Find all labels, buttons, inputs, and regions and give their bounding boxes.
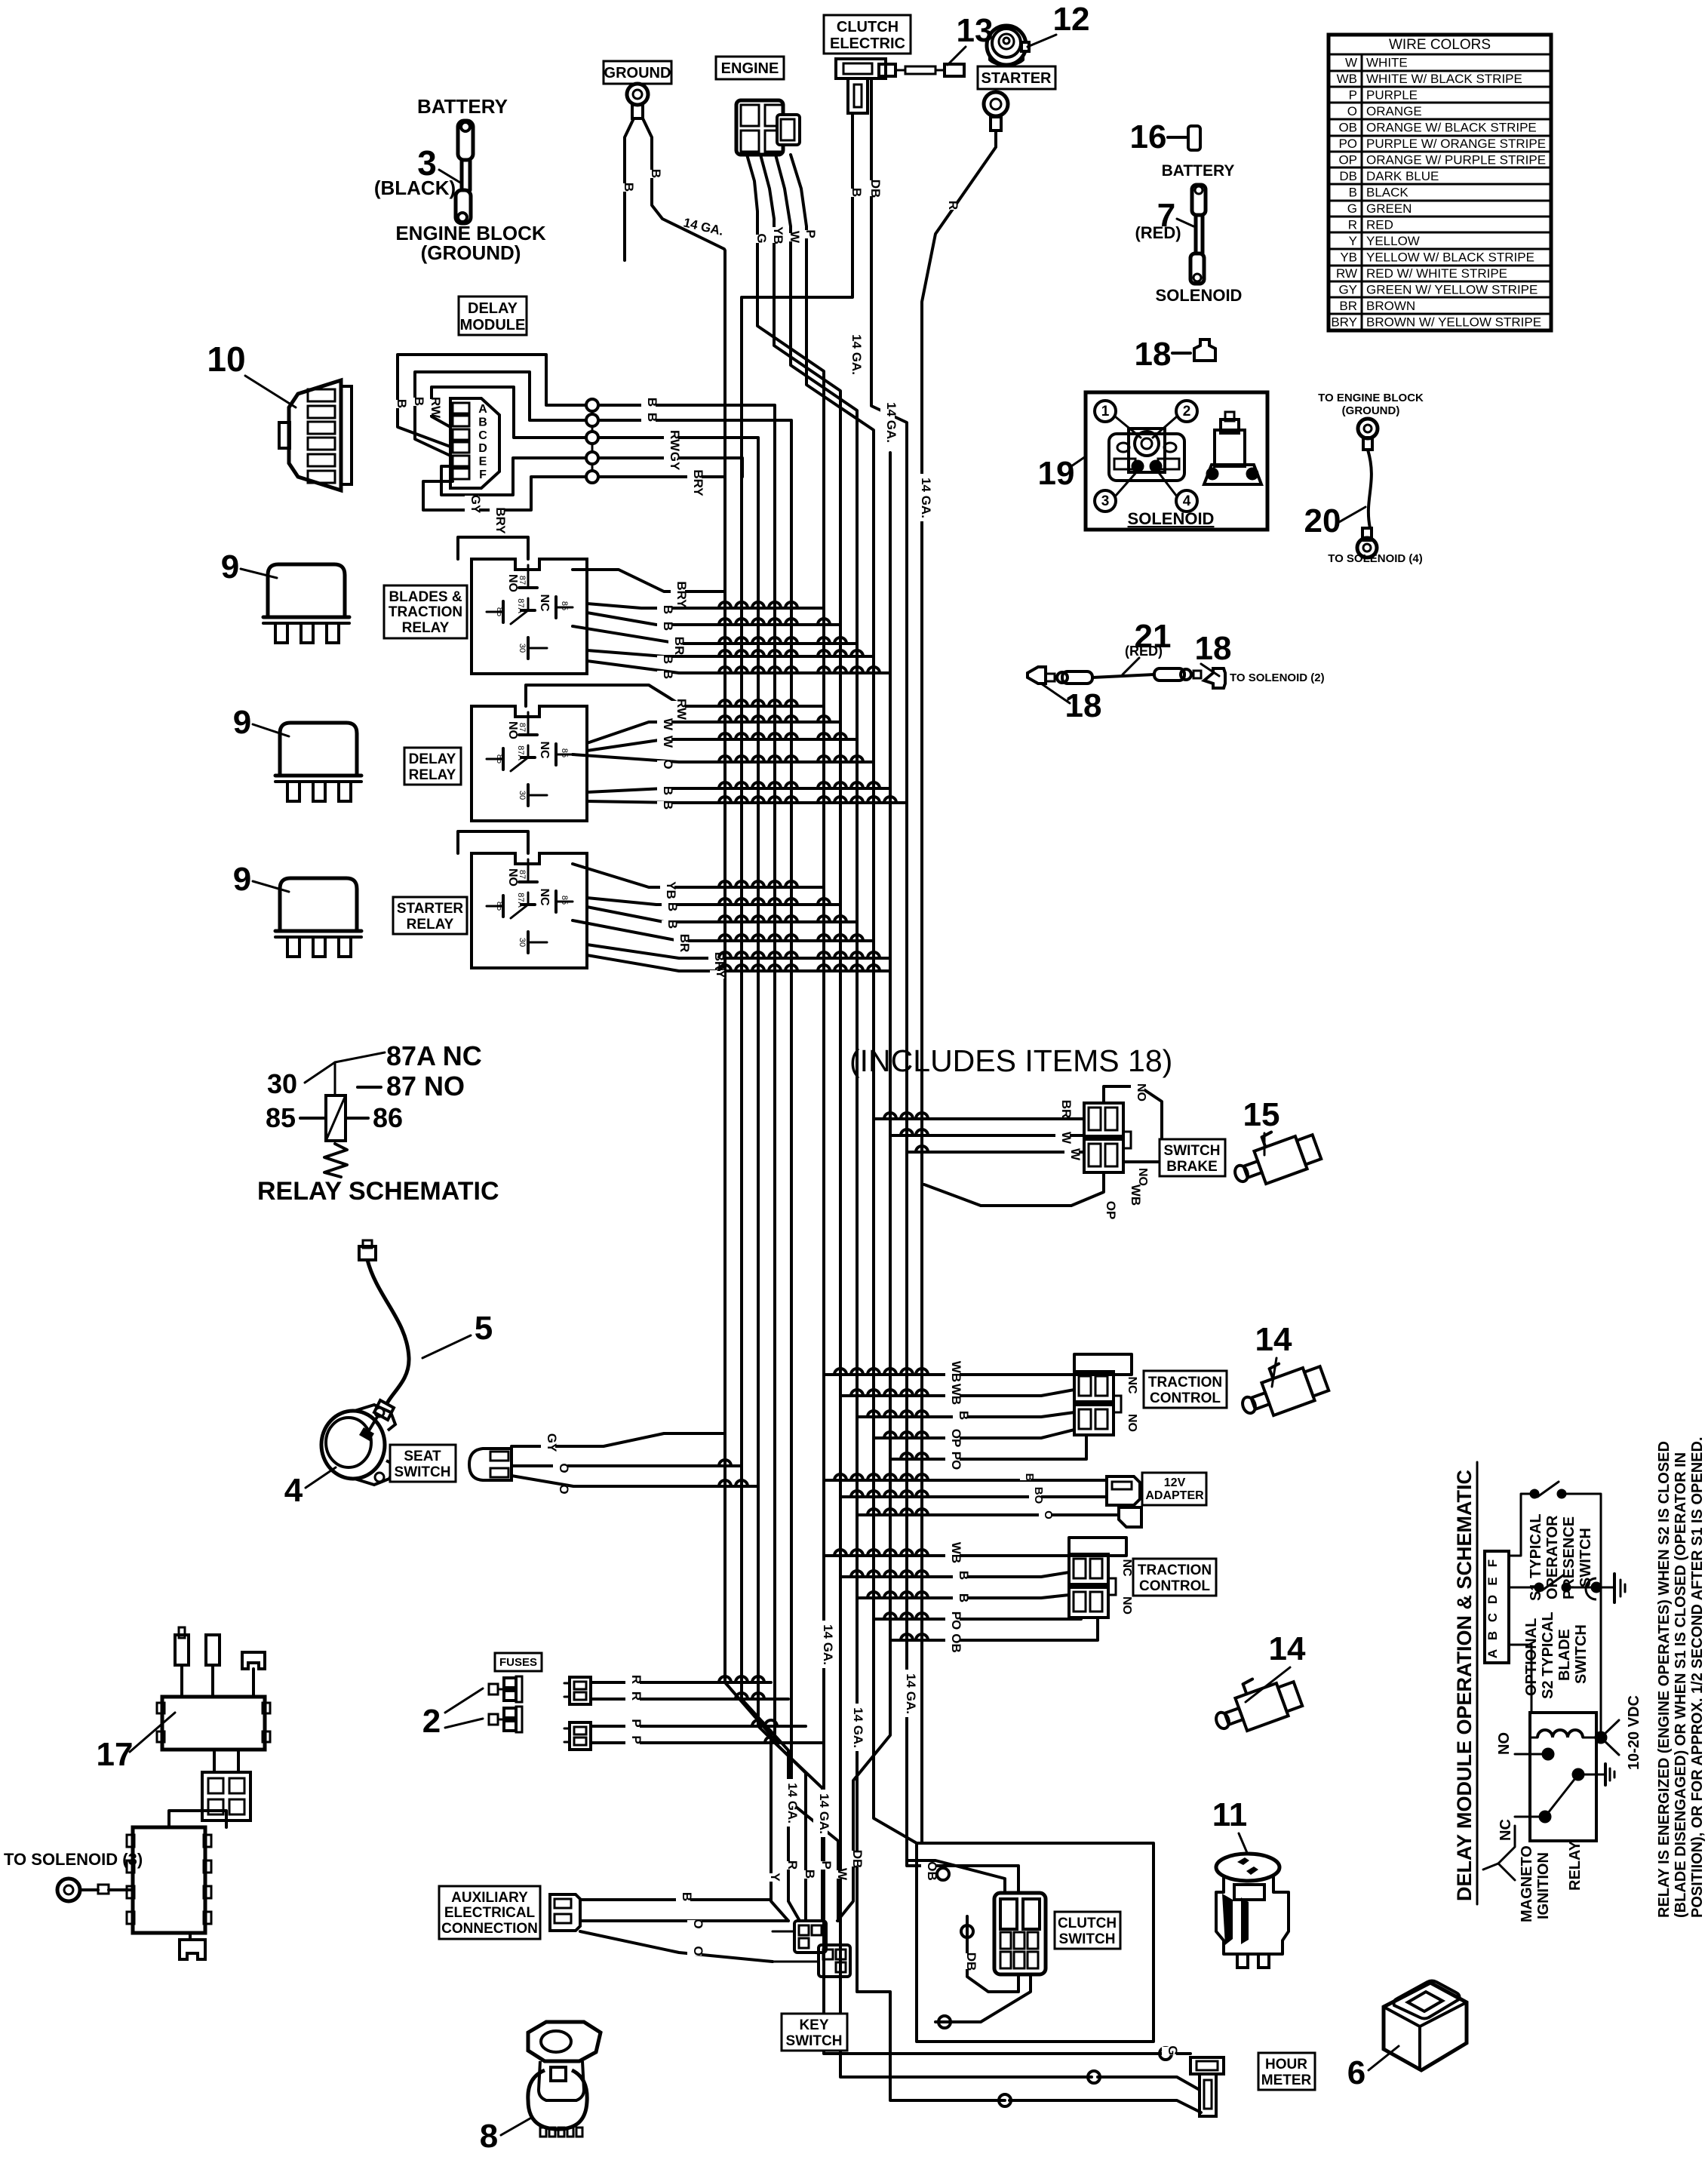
svg-text:WB: WB: [949, 1542, 963, 1563]
wire label BRY dm bot: [490, 509, 504, 533]
label box AUX: [439, 1886, 540, 1939]
wire tc2 B2: [857, 1595, 1069, 1598]
svg-text:B: B: [849, 188, 864, 197]
svg-text:D: D: [478, 442, 487, 455]
svg-text:NO: NO: [1120, 1596, 1133, 1615]
svg-text:BRY: BRY: [1331, 315, 1357, 330]
svg-text:85: 85: [560, 601, 569, 610]
lbl W sb2: [1064, 1151, 1079, 1159]
label box SWITCH BRAKE: [1160, 1139, 1225, 1176]
humps fuse p2: [765, 1737, 777, 1743]
svg-text:OP: OP: [1338, 153, 1357, 167]
svg-text:P: P: [803, 229, 818, 238]
svg-text:GY: GY: [1338, 283, 1357, 297]
svg-text:B: B: [665, 902, 680, 911]
svg-text:R: R: [785, 1860, 800, 1870]
svg-text:14 GA.: 14 GA.: [884, 402, 899, 443]
svg-text:20: 20: [1304, 502, 1341, 539]
item 14 switch b: [1207, 1666, 1304, 1739]
humps r2 b2: [719, 797, 896, 803]
item 14 switch a: [1233, 1350, 1330, 1424]
wire label B r2: [641, 413, 656, 422]
wire seat O1: [511, 1464, 742, 1467]
wire label W bot: [831, 1870, 846, 1879]
svg-text:G: G: [1347, 201, 1357, 216]
wire r1 B2: [587, 613, 840, 625]
wire label G: [751, 235, 765, 243]
lbl W sb1: [1055, 1134, 1070, 1142]
svg-text:HOUR: HOUR: [1265, 2057, 1307, 2072]
lbl PO tc1: [945, 1452, 960, 1468]
lbl P f2: [625, 1736, 640, 1744]
item 11 switch: [1216, 1854, 1289, 1968]
svg-text:BR: BR: [677, 934, 692, 953]
wire aux O2: [580, 1931, 773, 1962]
relay starter label box: [393, 897, 467, 934]
svg-text:KEY: KEY: [799, 2017, 828, 2033]
lbl NO sb top: [1131, 1085, 1144, 1100]
svg-text:19: 19: [1038, 455, 1075, 492]
item 6 hour meter body: [1384, 1981, 1467, 2071]
svg-text:SWITCH: SWITCH: [395, 1464, 451, 1480]
svg-text:W: W: [1068, 1148, 1083, 1161]
svg-text:NO: NO: [1135, 1083, 1147, 1102]
svg-text:MAGNETO: MAGNETO: [1519, 1845, 1535, 1922]
wire r3 YB: [573, 864, 824, 887]
wire label 14GA t4: [817, 1621, 831, 1668]
lbl OP sb: [1100, 1202, 1114, 1218]
svg-text:P: P: [819, 1860, 834, 1869]
wire cs o1: [937, 1868, 949, 1880]
wire label 14GA t5: [900, 1670, 914, 1717]
svg-text:ADAPTER: ADAPTER: [1145, 1489, 1204, 1502]
svg-text:GY: GY: [468, 495, 483, 514]
wire cs o3: [938, 2016, 951, 2028]
svg-text:WB: WB: [949, 1384, 963, 1405]
svg-text:GREEN: GREEN: [1366, 201, 1412, 216]
label box ENGINE: [716, 57, 784, 79]
wire label P bot: [816, 1861, 830, 1870]
svg-text:DELAY: DELAY: [409, 751, 456, 767]
wire tc2 B1: [840, 1572, 1069, 1577]
wire abcdef to relay: [1509, 1645, 1531, 1713]
wire seat O2: [511, 1476, 758, 1486]
label box TRACTION CONTROL 2: [1133, 1559, 1216, 1596]
humps r2 w1: [719, 716, 830, 722]
svg-text:CONTROL: CONTROL: [1139, 1578, 1210, 1594]
svg-text:12V: 12V: [1164, 1476, 1186, 1489]
hour meter connector: [1190, 2057, 1224, 2116]
lbl NC tc1: [1122, 1378, 1135, 1393]
svg-text:SWITCH: SWITCH: [786, 2033, 843, 2049]
wire r2 RW: [526, 685, 824, 706]
lbl B aux: [676, 1893, 690, 1901]
svg-text:NC: NC: [1498, 1819, 1514, 1841]
humps r3 br2: [719, 952, 880, 958]
svg-text:SWITCH: SWITCH: [1059, 1931, 1116, 1947]
svg-text:14: 14: [1269, 1630, 1306, 1667]
leader 12: [1028, 35, 1056, 47]
clutch electric connector: [836, 59, 886, 113]
lbl P f1: [625, 1719, 640, 1728]
svg-text:O: O: [557, 1484, 571, 1494]
svg-text:TRACTION: TRACTION: [389, 604, 462, 620]
wire label W: [784, 233, 798, 241]
wire r2 B1: [587, 788, 890, 792]
svg-text:CLUTCH: CLUTCH: [837, 19, 899, 35]
humps tc2 a: [834, 1550, 928, 1556]
lbl BR r3a: [674, 935, 688, 951]
svg-text:R: R: [629, 1675, 644, 1684]
wire r3 BR2: [587, 945, 890, 958]
label box DELAY MODULE: [459, 297, 527, 335]
svg-text:B: B: [1349, 186, 1357, 200]
traction control 2 connector: [1069, 1554, 1116, 1618]
svg-text:B: B: [661, 605, 675, 614]
lbl BR r3b: [708, 953, 723, 969]
humps r2 b1: [719, 782, 880, 788]
ground ring terminal: [627, 84, 648, 118]
svg-text:14 GA.: 14 GA.: [821, 1624, 835, 1665]
wire r2 O: [573, 754, 874, 762]
lbl NO sb bot: [1132, 1169, 1146, 1184]
svg-text:G: G: [1166, 2045, 1180, 2055]
svg-text:10: 10: [207, 340, 245, 379]
svg-text:OB: OB: [949, 1633, 963, 1653]
svg-text:BATTERY: BATTERY: [1162, 162, 1235, 180]
wire label RW r3: [664, 432, 678, 448]
delay module connector: [450, 398, 499, 488]
humps r1 b2: [719, 619, 830, 625]
wire r1 B3: [587, 650, 874, 656]
svg-text:14: 14: [1255, 1321, 1292, 1358]
svg-text:85: 85: [560, 896, 569, 905]
lbl YB r3: [660, 882, 674, 898]
wire engine W: [776, 155, 791, 297]
wire fuse P2: [591, 1741, 822, 1744]
wire label 14 GA. clutch: [846, 330, 860, 378]
svg-text:B: B: [1485, 1631, 1500, 1640]
wire tc1 OP: [874, 1430, 1074, 1438]
svg-text:A: A: [478, 403, 487, 416]
wire label B: [645, 170, 659, 178]
svg-text:SWITCH: SWITCH: [1164, 1143, 1221, 1159]
relay blades & traction: [472, 559, 587, 674]
lbl OP tc1: [945, 1430, 960, 1446]
leader 18r: [1201, 664, 1219, 676]
svg-text:ORANGE W/ PURPLE STRIPE: ORANGE W/ PURPLE STRIPE: [1366, 153, 1546, 167]
abcdef box: [1485, 1551, 1509, 1663]
svg-text:(INCLUDES ITEMS 18): (INCLUDES ITEMS 18): [849, 1043, 1172, 1078]
lbl WB tc1b: [945, 1386, 960, 1402]
relay box schematic: [1515, 1667, 1619, 1841]
label box SEAT SWITCH: [390, 1445, 456, 1482]
wire r2 W1: [587, 722, 840, 743]
svg-text:CONNECTION: CONNECTION: [441, 1921, 538, 1937]
item 15 switch: [1226, 1119, 1322, 1192]
svg-text:17: 17: [97, 1736, 134, 1773]
svg-text:B: B: [645, 398, 659, 407]
leader 17: [130, 1713, 175, 1752]
item 17 connectors: [127, 1627, 270, 1959]
svg-text:(RED): (RED): [1135, 223, 1181, 242]
leader 3: [439, 170, 460, 183]
aux connector: [550, 1894, 580, 1931]
lbl WB tc2: [945, 1544, 960, 1560]
svg-text:PO: PO: [949, 1612, 963, 1630]
svg-text:WHITE W/ BLACK STRIPE: WHITE W/ BLACK STRIPE: [1366, 72, 1522, 86]
humps r2 w2: [719, 733, 846, 739]
svg-text:NO: NO: [506, 574, 519, 592]
svg-text:O: O: [691, 1919, 705, 1928]
svg-text:B: B: [661, 786, 675, 795]
item 8 key switch: [528, 2022, 601, 2137]
relay blades & traction label box: [384, 585, 467, 638]
wire r3 B1: [587, 898, 840, 905]
svg-text:ORANGE: ORANGE: [1366, 104, 1422, 118]
wire label B clutch: [846, 189, 860, 197]
lbl O aux2: [687, 1947, 702, 1956]
label box FUSES: [495, 1653, 542, 1671]
svg-text:86: 86: [373, 1102, 403, 1133]
lbl R f1: [625, 1676, 640, 1684]
svg-text:DB: DB: [868, 180, 883, 198]
lbl BO 12v: [1029, 1489, 1041, 1503]
svg-text:PO: PO: [1338, 137, 1357, 151]
lbl WB tc1a: [945, 1363, 960, 1379]
wire cs bottom: [935, 1974, 1031, 2022]
title underline: [1476, 1462, 1479, 1904]
svg-text:RW: RW: [1336, 266, 1357, 281]
svg-text:A: A: [1485, 1649, 1500, 1658]
svg-text:MODULE: MODULE: [460, 317, 526, 333]
wire trunk L1: [725, 477, 788, 1921]
humps 12v a: [834, 1474, 928, 1480]
svg-text:6: 6: [1347, 2054, 1365, 2091]
lbl OB cs: [921, 1863, 935, 1879]
wire engine P: [791, 155, 806, 297]
humps seat o1: [719, 1460, 731, 1466]
svg-text:O: O: [1042, 1510, 1055, 1519]
svg-text:SEAT: SEAT: [404, 1449, 441, 1464]
lbl B r2b: [657, 801, 671, 810]
svg-text:5: 5: [475, 1310, 493, 1347]
lbl R f2: [625, 1692, 640, 1701]
svg-text:F: F: [1485, 1559, 1500, 1567]
svg-text:P: P: [629, 1719, 644, 1727]
svg-text:DB: DB: [964, 1953, 978, 1971]
wire r3 Y: [587, 955, 890, 971]
wire aux O1: [580, 1919, 788, 1922]
humps r3 b2: [719, 916, 846, 922]
svg-text:YB: YB: [771, 226, 785, 244]
svg-text:F: F: [479, 469, 487, 481]
svg-text:B: B: [412, 397, 426, 406]
humps r2 rw: [719, 700, 797, 706]
humps 12v c: [868, 1509, 928, 1515]
wire label 14GA t2: [813, 1790, 828, 1837]
svg-text:WB: WB: [1129, 1184, 1143, 1206]
humps tc2 b: [851, 1571, 928, 1577]
svg-text:DELAY MODULE OPERATION & SCHEM: DELAY MODULE OPERATION & SCHEMATIC: [1453, 1470, 1476, 1901]
svg-text:R: R: [1348, 218, 1357, 232]
item 9 relay a: [263, 564, 349, 643]
wire ground B left: [625, 118, 634, 260]
svg-text:87A NC: 87A NC: [386, 1040, 482, 1071]
svg-text:16: 16: [1130, 118, 1167, 155]
svg-text:B: B: [957, 1411, 971, 1420]
engine connector: [736, 100, 800, 155]
leader 11: [1239, 1833, 1248, 1854]
item 19 solenoid detail box: [1086, 392, 1267, 530]
svg-text:RW: RW: [429, 397, 443, 419]
svg-text:NC: NC: [538, 594, 551, 612]
label box CLUTCH SWITCH: [1055, 1912, 1120, 1949]
wire fuse R1: [591, 1681, 771, 1684]
humps seat o2: [719, 1480, 748, 1486]
wire cs o2: [961, 1925, 973, 1937]
wire sb W2: [907, 1151, 1084, 1154]
wire 12v BO: [840, 1495, 1107, 1498]
relay delay: [472, 706, 587, 821]
svg-text:C: C: [1485, 1613, 1500, 1622]
svg-text:GROUND: GROUND: [604, 65, 671, 81]
label box HOUR METER: [1258, 2053, 1315, 2090]
lbl G hm: [1162, 2047, 1176, 2055]
svg-text:15: 15: [1243, 1096, 1280, 1133]
wire label DB clutch: [865, 180, 879, 196]
svg-text:BRY: BRY: [493, 507, 508, 534]
wire fuse P1: [591, 1725, 806, 1728]
leader 19: [1071, 456, 1086, 466]
wire label GY r4: [664, 453, 678, 469]
svg-text:B: B: [661, 800, 675, 810]
svg-text:TO ENGINE BLOCK: TO ENGINE BLOCK: [1318, 392, 1424, 404]
wire trunk L4: [775, 476, 822, 1921]
wire label BRY r5: [687, 471, 702, 495]
humps r1 b3: [719, 650, 863, 656]
svg-text:RW: RW: [674, 699, 689, 721]
lbl B r3a: [662, 903, 676, 911]
wire delay BRY loop: [423, 477, 725, 510]
wire cs loop outer: [917, 1843, 1154, 2042]
svg-text:W: W: [1345, 56, 1357, 70]
svg-text:E: E: [1485, 1577, 1500, 1585]
svg-text:POSITIION), OR FOR APPROX. 1/2: POSITIION), OR FOR APPROX. 1/2 SECOND AF…: [1689, 1436, 1706, 1918]
svg-text:3: 3: [1101, 493, 1110, 509]
leader item 9 relay b: [253, 724, 289, 736]
wire sb BR: [874, 1117, 1084, 1120]
svg-text:G: G: [754, 233, 769, 243]
hour meter circles: [999, 2048, 1172, 2106]
wire tc1 WB2: [840, 1390, 1074, 1396]
svg-text:14 GA.: 14 GA.: [817, 1793, 831, 1834]
leader 7: [1177, 219, 1193, 226]
svg-text:10-20 VDC: 10-20 VDC: [1626, 1695, 1642, 1770]
wire r3 BR1: [573, 920, 874, 941]
leader 20: [1339, 507, 1365, 522]
humps tc2 e: [901, 1634, 928, 1640]
humps r1 b4: [719, 667, 880, 673]
svg-text:14 GA.: 14 GA.: [849, 334, 864, 375]
leader item 15 switch: [1264, 1133, 1266, 1155]
svg-text:BROWN: BROWN: [1366, 299, 1415, 313]
svg-text:TRACTION: TRACTION: [1138, 1562, 1212, 1578]
svg-text:R: R: [946, 201, 960, 210]
item 9 relay b: [275, 723, 361, 801]
svg-text:B: B: [680, 1892, 694, 1901]
lbl NO tc1: [1122, 1415, 1135, 1430]
wire r1 BRY: [573, 570, 725, 591]
svg-text:PURPLE: PURPLE: [1366, 88, 1418, 103]
svg-text:STARTER: STARTER: [397, 901, 464, 917]
wire label B dm2: [408, 398, 422, 406]
svg-text:W: W: [1059, 1132, 1074, 1145]
wire label 14GA t3: [847, 1704, 862, 1751]
wire tc1 WB1: [824, 1354, 1132, 1375]
fuses item 2: [489, 1676, 522, 1732]
svg-text:GY: GY: [545, 1433, 559, 1452]
lbl NC tc2: [1117, 1560, 1130, 1575]
wire r3 top loop: [458, 831, 528, 853]
leaders 2: [445, 1688, 483, 1713]
svg-text:RELAY: RELAY: [402, 620, 450, 636]
svg-text:OP: OP: [1104, 1201, 1118, 1220]
svg-text:ELECTRICAL: ELECTRICAL: [444, 1905, 536, 1921]
humps fuse r1: [719, 1676, 764, 1682]
svg-text:RED: RED: [1366, 218, 1393, 232]
svg-text:30: 30: [267, 1068, 297, 1099]
humps r3 y: [719, 965, 880, 971]
svg-text:RELAY: RELAY: [1567, 1840, 1584, 1891]
svg-text:ENGINE: ENGINE: [721, 60, 779, 77]
svg-text:SOLENOID: SOLENOID: [1128, 509, 1215, 528]
wire trunk R4: [806, 297, 917, 1843]
svg-text:RW: RW: [668, 430, 682, 452]
wire sb W1: [890, 1134, 1084, 1137]
leader 10: [245, 376, 296, 407]
12v adapter connector: [1107, 1476, 1141, 1527]
wire r1 top loop: [458, 537, 528, 559]
wire delay B left: [398, 355, 775, 477]
svg-text:NO: NO: [506, 721, 519, 739]
svg-text:1: 1: [1101, 404, 1110, 419]
seat switch connector: [469, 1449, 511, 1480]
humps tc1 d: [884, 1432, 928, 1438]
wire trunk L2: [742, 476, 800, 1921]
svg-text:18: 18: [1065, 687, 1102, 724]
leader item 14 switch b: [1246, 1667, 1290, 1702]
svg-text:85: 85: [560, 748, 569, 757]
humps r3 b1: [719, 899, 830, 905]
item 18 connector upper: [1172, 340, 1215, 361]
label box STARTER: [978, 66, 1055, 89]
svg-text:9: 9: [221, 548, 239, 585]
svg-text:B: B: [957, 1593, 971, 1602]
leader 21: [1123, 658, 1139, 674]
lbl OB tc2: [945, 1635, 960, 1651]
svg-text:TO SOLENOID (3): TO SOLENOID (3): [4, 1850, 143, 1869]
svg-text:RED W/ WHITE STRIPE: RED W/ WHITE STRIPE: [1366, 266, 1507, 281]
svg-text:B: B: [622, 183, 636, 192]
junction circles delay: [586, 399, 598, 483]
lbl WB sb: [1125, 1187, 1139, 1203]
item 12 clutch pulley: [987, 26, 1029, 66]
wire cs OB: [907, 1860, 1005, 1893]
svg-text:BLACK: BLACK: [1366, 186, 1408, 200]
wire engine G: [747, 155, 757, 297]
svg-text:OB: OB: [1338, 121, 1357, 135]
